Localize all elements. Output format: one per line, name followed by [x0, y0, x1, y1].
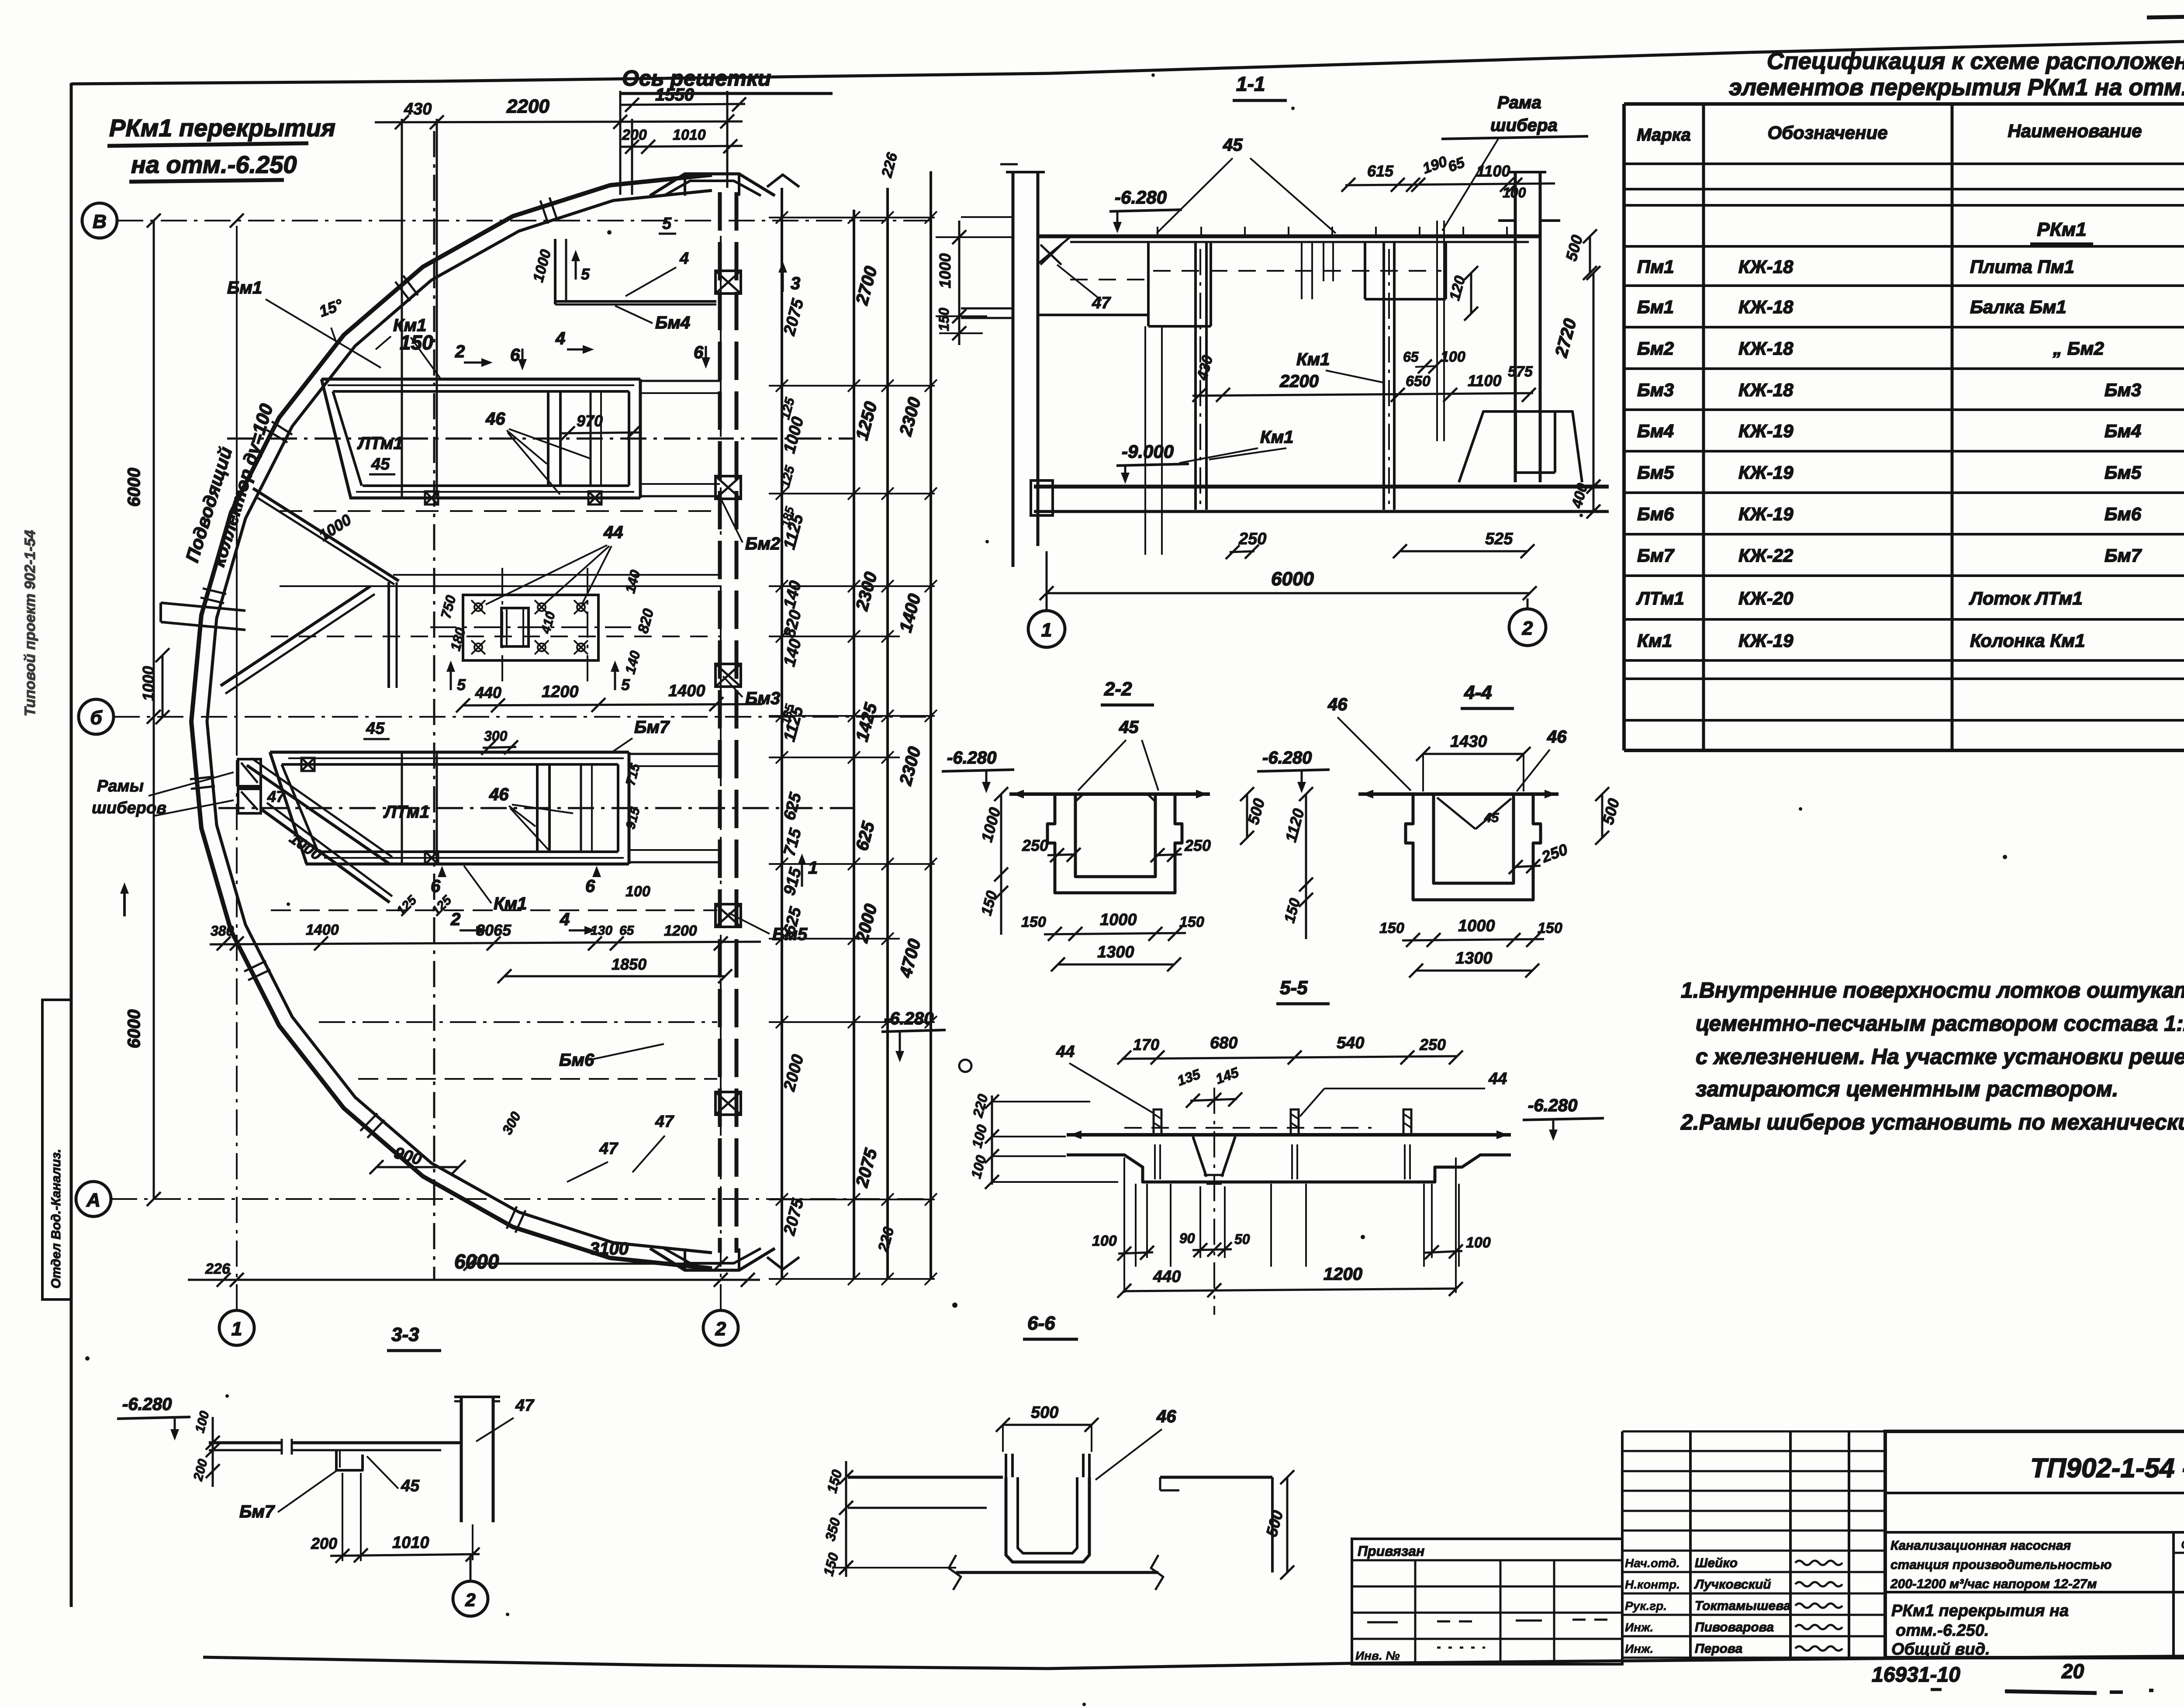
- svg-text:680: 680: [1210, 1034, 1237, 1052]
- svg-text:250: 250: [1419, 1036, 1446, 1054]
- lower channel outer bottom edge: [306, 863, 629, 866]
- s11 axis circle 1: [1028, 611, 1065, 647]
- svg-text:КЖ-18: КЖ-18: [1738, 380, 1794, 400]
- svg-text:5: 5: [581, 265, 590, 283]
- svg-text:элементов перекрытия РКм1 на: элементов перекрытия РКм1 на отм.-6.250: [1729, 74, 2184, 100]
- svg-text:-6.280: -6.280: [1262, 748, 1312, 767]
- sheet border top: [71, 37, 2184, 84]
- svg-text:КЖ-19: КЖ-19: [1738, 630, 1794, 651]
- svg-text:„ Бм2: „ Бм2: [2053, 338, 2104, 359]
- svg-text:300: 300: [484, 728, 508, 744]
- s11 middle column B: [1382, 243, 1385, 510]
- svg-text:ЛТм1: ЛТм1: [383, 802, 429, 822]
- svg-text:ТП902-1-54 -КЖ: ТП902-1-54 -КЖ: [2030, 1453, 2184, 1483]
- svg-text:Бм3: Бм3: [2105, 380, 2141, 400]
- svg-text:5-5: 5-5: [1280, 977, 1308, 999]
- s55 dim 135 145: [1190, 1099, 1237, 1101]
- s33 joint: [281, 1439, 283, 1455]
- svg-text:100: 100: [1092, 1233, 1117, 1249]
- svg-text:Перова: Перова: [1695, 1641, 1742, 1656]
- s66 channel walls above slab: [1005, 1454, 1007, 1477]
- grate axis underline: [620, 92, 833, 95]
- svg-text:150: 150: [1538, 920, 1562, 936]
- svg-text:Канализационная насосная: Канализационная насосная: [1890, 1538, 2071, 1553]
- svg-text:90: 90: [1179, 1230, 1195, 1246]
- s55 top dim row: [1122, 1056, 1457, 1059]
- s44 top surface: [1358, 792, 1559, 796]
- svg-text:970: 970: [577, 412, 603, 430]
- s55 rebar pins: [1154, 1109, 1161, 1135]
- s55 dim 440/1200: [1123, 1289, 1457, 1291]
- s44 bottom dim 150/1000/150: [1402, 939, 1544, 940]
- s11 column centerlines: [1199, 249, 1201, 507]
- svg-text:КЖ-18: КЖ-18: [1738, 297, 1794, 317]
- s55 funnel: [1193, 1137, 1206, 1177]
- s55 bottom dim verticals: [1123, 1158, 1125, 1293]
- svg-text:1550: 1550: [655, 85, 694, 104]
- svg-text:2: 2: [1522, 618, 1533, 639]
- s11 axis circle 2: [1509, 609, 1546, 646]
- svg-text:Марка: Марка: [1637, 125, 1691, 145]
- svg-text:Бм4: Бм4: [1637, 421, 1674, 441]
- svg-text:Пм1: Пм1: [1637, 256, 1674, 277]
- x-mark upper band left: [425, 491, 438, 504]
- diagonal wall lower 2: [262, 810, 390, 902]
- dimension 1850: [505, 975, 725, 978]
- svg-text:4-4: 4-4: [1464, 682, 1492, 703]
- svg-text:Бм5: Бм5: [1637, 462, 1674, 483]
- svg-text:Бм7: Бм7: [239, 1502, 275, 1521]
- s11 shiber slot: [1436, 221, 1438, 441]
- svg-text:1400: 1400: [668, 682, 705, 700]
- svg-text:Бм1: Бм1: [227, 278, 262, 297]
- svg-text:КЖ-20: КЖ-20: [1738, 588, 1793, 608]
- svg-text:Бм1: Бм1: [1637, 297, 1674, 317]
- svg-text:6: 6: [510, 346, 520, 365]
- titleblock main outline: [1885, 1431, 2184, 1658]
- anchor bottom dims 440/1200/1400: [462, 704, 762, 705]
- svg-text:Рамы: Рамы: [97, 777, 144, 795]
- x-mark upper band right: [588, 491, 601, 504]
- upper channel inner bottom edge: [363, 484, 629, 487]
- svg-text:-6.280: -6.280: [122, 1395, 172, 1414]
- svg-text:45: 45: [1119, 718, 1139, 737]
- anchor centerlines: [501, 568, 503, 684]
- privyazan dashes: [1367, 1621, 1398, 1624]
- lower channel left slant: [270, 752, 307, 864]
- svg-text:430: 430: [404, 100, 432, 118]
- privyazan table outline: [1352, 1539, 1622, 1664]
- diagonal wall lower 1: [247, 765, 390, 864]
- svg-text:Бм2: Бм2: [745, 534, 780, 553]
- svg-text:1400: 1400: [306, 922, 339, 938]
- s66 slab top left: [848, 1476, 1003, 1479]
- s44 outer U: [1406, 794, 1541, 900]
- svg-text:на отм.-6.250: на отм.-6.250: [131, 151, 297, 178]
- svg-text:-6.280: -6.280: [1528, 1096, 1577, 1115]
- s22 dim 500 right: [1246, 794, 1248, 838]
- svg-text:-6.280: -6.280: [1115, 187, 1167, 207]
- diagonal wall upper 1: [253, 488, 399, 581]
- svg-text:1010: 1010: [673, 127, 706, 143]
- smudge marks below: [2005, 1691, 2097, 1693]
- svg-text:200: 200: [311, 1534, 337, 1552]
- svg-text:2-2: 2-2: [1104, 678, 1132, 700]
- plan right wall line 2: [735, 192, 739, 1253]
- s33 right T column: [460, 1397, 463, 1522]
- s11 slab dowels: [1157, 227, 1158, 236]
- svg-text:5: 5: [457, 676, 466, 694]
- beam axis lower 2: [358, 1078, 717, 1080]
- axis circle B top: [82, 203, 117, 238]
- s11 left edge continuations: [961, 308, 1013, 310]
- svg-text:4: 4: [560, 910, 570, 929]
- svg-text:Плита Пм1: Плита Пм1: [1970, 256, 2074, 277]
- svg-text:2: 2: [450, 910, 460, 929]
- axis circle A bottom: [76, 1182, 111, 1216]
- s11 wall top tick: [1000, 163, 1018, 166]
- svg-text:46: 46: [489, 785, 509, 804]
- svg-text:Типовой проект 902-1-54: Типовой проект 902-1-54: [22, 530, 38, 716]
- lower channel inner top edge: [282, 763, 618, 766]
- upper channel extra top line: [328, 384, 634, 386]
- plan right wall line 1: [718, 192, 722, 1253]
- svg-text:44: 44: [1056, 1043, 1075, 1061]
- s55 dim 100 left: [1118, 1252, 1153, 1254]
- svg-text:Км1: Км1: [1260, 428, 1293, 447]
- svg-text:46: 46: [1327, 695, 1348, 714]
- plan inner wall arc: [207, 190, 712, 1253]
- s11 top dims 615/190/65/1100/100: [1345, 183, 1555, 185]
- upper channel inner top edge: [333, 390, 629, 393]
- svg-text:200-1200 м³/час напором 12-27м: 200-1200 м³/час напором 12-27м: [1890, 1577, 2097, 1591]
- upper channel right end: [639, 379, 642, 498]
- svg-text:Бм7: Бм7: [1637, 545, 1675, 566]
- svg-text:Нач.отд.: Нач.отд.: [1625, 1556, 1680, 1570]
- svg-text:650: 650: [1406, 373, 1431, 390]
- svg-text:РКм1 перекрытия на: РКм1 перекрытия на: [1891, 1602, 2069, 1620]
- svg-text:100: 100: [1503, 185, 1526, 200]
- s66 bottom slab: [956, 1571, 1158, 1574]
- section mark 1 right: [801, 857, 803, 887]
- svg-text:130: 130: [591, 923, 612, 938]
- s44 left dim 1120/150: [1305, 794, 1307, 939]
- s11 dim 6000: [1047, 592, 1530, 594]
- svg-text:Шейко: Шейко: [1695, 1556, 1738, 1570]
- titleblock TP number cell: [1885, 1492, 2184, 1494]
- svg-text:44: 44: [603, 523, 623, 542]
- svg-text:1200: 1200: [664, 923, 697, 939]
- diagonal wall upper 2: [221, 586, 370, 686]
- s11 dim 400 right: [1593, 487, 1595, 511]
- section mark 5 left: [450, 664, 452, 690]
- svg-text:Км1: Км1: [1637, 630, 1672, 651]
- svg-text:Инж.: Инж.: [1625, 1621, 1653, 1634]
- svg-text:2200: 2200: [506, 96, 549, 117]
- dimension row 380/1400/3065 etc: [210, 942, 761, 944]
- svg-text:4: 4: [679, 249, 689, 268]
- s66 dim 500 top: [1003, 1424, 1092, 1426]
- axis line A: [111, 1198, 931, 1200]
- svg-text:150: 150: [1379, 920, 1404, 936]
- svg-text:1200: 1200: [542, 683, 579, 701]
- svg-text:Пивоварова: Пивоварова: [1695, 1620, 1774, 1634]
- svg-text:1200: 1200: [1324, 1265, 1362, 1284]
- stub detail 1000/150: [958, 221, 961, 345]
- svg-text:1: 1: [232, 1318, 242, 1340]
- interior dashed y1457: [271, 636, 720, 637]
- svg-text:1000: 1000: [139, 666, 157, 701]
- s22 dim 250 right: [1155, 854, 1182, 855]
- svg-text:с железнением. На участке уст: с железнением. На участке установки реше…: [1696, 1044, 2184, 1069]
- svg-text:Бм6: Бм6: [559, 1050, 594, 1070]
- s11 step right: [1364, 243, 1366, 299]
- lower channel edge continuation: [629, 753, 720, 755]
- s44 dim 500 right: [1601, 794, 1603, 838]
- svg-text:2: 2: [715, 1318, 726, 1340]
- svg-text:170: 170: [1133, 1036, 1159, 1054]
- svg-text:Бм2: Бм2: [1637, 338, 1674, 359]
- svg-text:КЖ-19: КЖ-19: [1738, 504, 1794, 524]
- svg-text:2: 2: [455, 342, 465, 361]
- s22 top surface: [1009, 792, 1210, 796]
- wall columns on right chord: [715, 271, 741, 294]
- sheet border bottom: [203, 1655, 2184, 1669]
- svg-text:1: 1: [808, 858, 818, 878]
- svg-text:Привязан: Привязан: [1358, 1543, 1424, 1559]
- svg-text:47: 47: [267, 788, 286, 805]
- diagonal wall vertical connector: [387, 582, 390, 688]
- svg-text:Инж.: Инж.: [1625, 1642, 1653, 1655]
- svg-text:150: 150: [1179, 914, 1204, 930]
- svg-text:Бм6: Бм6: [1637, 504, 1674, 524]
- speck circle small o: [959, 1060, 971, 1072]
- s22 corner fillets: [1075, 794, 1083, 802]
- lower channel extra top line: [288, 757, 624, 759]
- svg-text:Бм6: Бм6: [2105, 504, 2142, 524]
- lower channel inner bottom edge: [318, 850, 618, 853]
- svg-text:45: 45: [371, 455, 390, 473]
- svg-text:615: 615: [1367, 162, 1394, 180]
- svg-text:1850: 1850: [612, 955, 646, 973]
- shiber frame 1: [238, 759, 261, 786]
- section mark 5 up arrow: [575, 253, 577, 280]
- svg-text:500: 500: [1031, 1403, 1058, 1422]
- svg-text:Рук.гр.: Рук.гр.: [1625, 1599, 1667, 1613]
- sheet border left: [70, 83, 73, 1607]
- svg-text:Лоток ЛТм1: Лоток ЛТм1: [1969, 588, 2083, 608]
- s22 inner U: [1075, 794, 1155, 877]
- axis circle B middle: [79, 699, 114, 734]
- svg-text:Инв. №: Инв. №: [1355, 1649, 1400, 1662]
- svg-text:затираются цементным раствор: затираются цементным раствором.: [1696, 1077, 2118, 1101]
- anchor plate rectangle: [463, 595, 598, 660]
- svg-text:Балка Бм1: Балка Бм1: [1970, 297, 2067, 317]
- s11 hidden edge dashes: [1153, 270, 1441, 272]
- svg-text:46: 46: [485, 409, 505, 428]
- s11 middle column A: [1194, 243, 1197, 510]
- upper channel nested end: [590, 391, 592, 486]
- axis circle 1 bottom: [219, 1310, 254, 1345]
- lower channel outer top edge: [270, 751, 629, 754]
- svg-text:440: 440: [475, 684, 501, 701]
- s33 slab left part: [209, 1441, 282, 1444]
- s66 slab top right: [1160, 1476, 1272, 1479]
- svg-text:РКм1 перекрытия: РКм1 перекрытия: [109, 114, 335, 142]
- arc segment joints: [549, 197, 557, 221]
- s11 slab chamfer left: [1038, 236, 1071, 264]
- svg-text:Бм3: Бм3: [745, 689, 780, 708]
- upper channel extra bottom line: [356, 491, 634, 493]
- bottom dimension 6000: [188, 1279, 760, 1281]
- upper channel edge continuation: [640, 380, 720, 382]
- svg-text:отм.-6.250.: отм.-6.250.: [1896, 1621, 1989, 1640]
- svg-text:100: 100: [1466, 1234, 1491, 1251]
- svg-text:1100: 1100: [1468, 372, 1501, 390]
- svg-text:3065: 3065: [476, 921, 511, 939]
- svg-text:45: 45: [401, 1477, 420, 1495]
- spec table grid: [1622, 104, 1626, 750]
- svg-text:Бм5: Бм5: [2105, 462, 2142, 483]
- svg-text:КЖ-18: КЖ-18: [1738, 338, 1794, 359]
- svg-text:1010: 1010: [392, 1534, 429, 1552]
- titleblock sheet name cell: [1885, 1591, 2184, 1593]
- s11 right stool element: [1459, 411, 1582, 482]
- axis line B: [117, 220, 931, 221]
- svg-text:44: 44: [1488, 1070, 1507, 1088]
- lower channel centerline: [218, 807, 854, 809]
- s33 beam Bm7: [336, 1450, 363, 1470]
- s22 dim 1300: [1058, 964, 1174, 966]
- collector pipe: [161, 603, 245, 611]
- lower channel inner partition: [536, 764, 539, 852]
- s33 bottom dims 200/1010: [330, 1554, 480, 1556]
- s44 inner U: [1434, 794, 1514, 883]
- s11 corner brace X: [1040, 245, 1061, 265]
- svg-text:Бм4: Бм4: [2105, 421, 2141, 441]
- s55 left dims 220/100/100: [991, 1095, 993, 1185]
- s55 slab top: [1067, 1133, 1511, 1137]
- svg-text:-6.280: -6.280: [947, 748, 996, 767]
- svg-text:ЛТм1: ЛТм1: [1636, 588, 1684, 608]
- svg-text:1-1: 1-1: [1236, 73, 1265, 95]
- svg-text:1300: 1300: [1097, 943, 1134, 961]
- svg-text:5: 5: [621, 676, 630, 694]
- axis line B-mid: [114, 716, 931, 718]
- svg-text:РКм1: РКм1: [2037, 219, 2086, 240]
- s11 thin verticals 250: [1144, 326, 1146, 548]
- s55 funnel centerline: [1213, 1088, 1215, 1315]
- section mark 3 up arrow: [782, 265, 784, 292]
- svg-text:46: 46: [1156, 1407, 1176, 1426]
- s55 dim 100 right: [1425, 1251, 1462, 1253]
- s55 below-slab pin extensions: [1135, 1184, 1137, 1267]
- plan top corner gable: [650, 174, 775, 196]
- svg-text:1100: 1100: [1476, 162, 1510, 180]
- svg-text:станция производительностью: станция производительностью: [1890, 1558, 2111, 1572]
- svg-text:200: 200: [622, 127, 647, 143]
- svg-text:47: 47: [1092, 294, 1111, 312]
- svg-text:6000: 6000: [454, 1250, 499, 1273]
- svg-text:45: 45: [1223, 135, 1243, 155]
- svg-text:Отдел Вод.-Канализ.: Отдел Вод.-Канализ.: [49, 1149, 63, 1289]
- lower channel nested end: [580, 764, 582, 852]
- svg-text:Бм7: Бм7: [2105, 545, 2142, 566]
- svg-text:6-6: 6-6: [1027, 1313, 1055, 1334]
- upper channel left slant: [321, 379, 351, 498]
- section mark 1 left: [123, 887, 126, 916]
- svg-text:46: 46: [1547, 727, 1567, 746]
- svg-text:Спецификация к схеме распол: Спецификация к схеме расположения: [1767, 48, 2184, 74]
- s11 dim 250: [1230, 551, 1254, 552]
- s55 slab top dashed: [1124, 1127, 1372, 1129]
- svg-text:6: 6: [694, 343, 704, 362]
- s66 left dims 150/350/150: [845, 1461, 847, 1577]
- section mark 5 right: [614, 664, 616, 690]
- s11 top slab: [1038, 235, 1540, 238]
- s44 dim 1430: [1423, 753, 1524, 755]
- s11 niche ceiling: [1038, 314, 1148, 316]
- s22 dim 250 left: [1047, 854, 1075, 855]
- svg-text:250: 250: [1022, 836, 1048, 854]
- s11 extra slab verticals: [1323, 243, 1324, 281]
- s66 break marks: [949, 1555, 961, 1590]
- svg-text:1: 1: [1041, 619, 1052, 641]
- svg-text:1000: 1000: [936, 253, 954, 288]
- s33 slab right part: [292, 1441, 461, 1444]
- svg-text:Бм7: Бм7: [634, 718, 670, 737]
- beam axis Bm6: [319, 1021, 717, 1023]
- left margin small box bottom: [42, 999, 71, 1001]
- s66 right end: [1271, 1477, 1274, 1572]
- titleblock signature grid: [1621, 1431, 1624, 1658]
- dimension 300 lower: [483, 747, 516, 748]
- s11 dim 525: [1400, 550, 1527, 553]
- lower channel right end: [628, 752, 631, 864]
- svg-text:50: 50: [1234, 1231, 1250, 1247]
- svg-text:100: 100: [625, 883, 650, 900]
- grate axis dashdot vertical: [433, 131, 435, 1279]
- ladder bottom cap: [767, 1257, 799, 1269]
- upper channel outer top edge: [321, 378, 640, 381]
- svg-text:1000: 1000: [1100, 911, 1137, 929]
- axis line 1 vertical: [236, 756, 238, 1310]
- svg-text:Колонка Км1: Колонка Км1: [1970, 630, 2085, 651]
- label 900 on arc: [377, 1166, 459, 1168]
- ladder top cap: [767, 175, 799, 187]
- svg-text:1.Внутренние поверхности лот: 1.Внутренние поверхности лотков оштукату…: [1681, 978, 2184, 1002]
- top dimension 1550: [620, 104, 745, 105]
- s66 mid reference line: [848, 1507, 987, 1509]
- svg-text:КЖ-18: КЖ-18: [1738, 256, 1794, 277]
- svg-text:6000: 6000: [124, 468, 144, 507]
- s11 dim 2720 right: [1593, 273, 1595, 487]
- svg-text:Лучковский: Лучковский: [1694, 1577, 1771, 1592]
- svg-text:Токтамышева: Токтамышева: [1695, 1599, 1791, 1613]
- svg-text:А: А: [86, 1189, 100, 1211]
- top dimension 200 1010: [620, 146, 743, 147]
- titleblock project name cell: [2172, 1532, 2175, 1658]
- svg-text:1430: 1430: [1450, 733, 1487, 751]
- s11 dim 500 right: [1589, 236, 1591, 273]
- ladder vertical 4: [930, 171, 932, 1280]
- svg-text:шиберов: шиберов: [92, 799, 166, 817]
- titleblock stage columns: [2174, 1552, 2184, 1554]
- svg-text:цементно-песчаным раствором: цементно-песчаным раствором состава 1:2 …: [1696, 1011, 2184, 1036]
- svg-text:47: 47: [515, 1396, 535, 1415]
- s11 left wall: [1012, 172, 1015, 567]
- svg-text:6: 6: [431, 877, 441, 896]
